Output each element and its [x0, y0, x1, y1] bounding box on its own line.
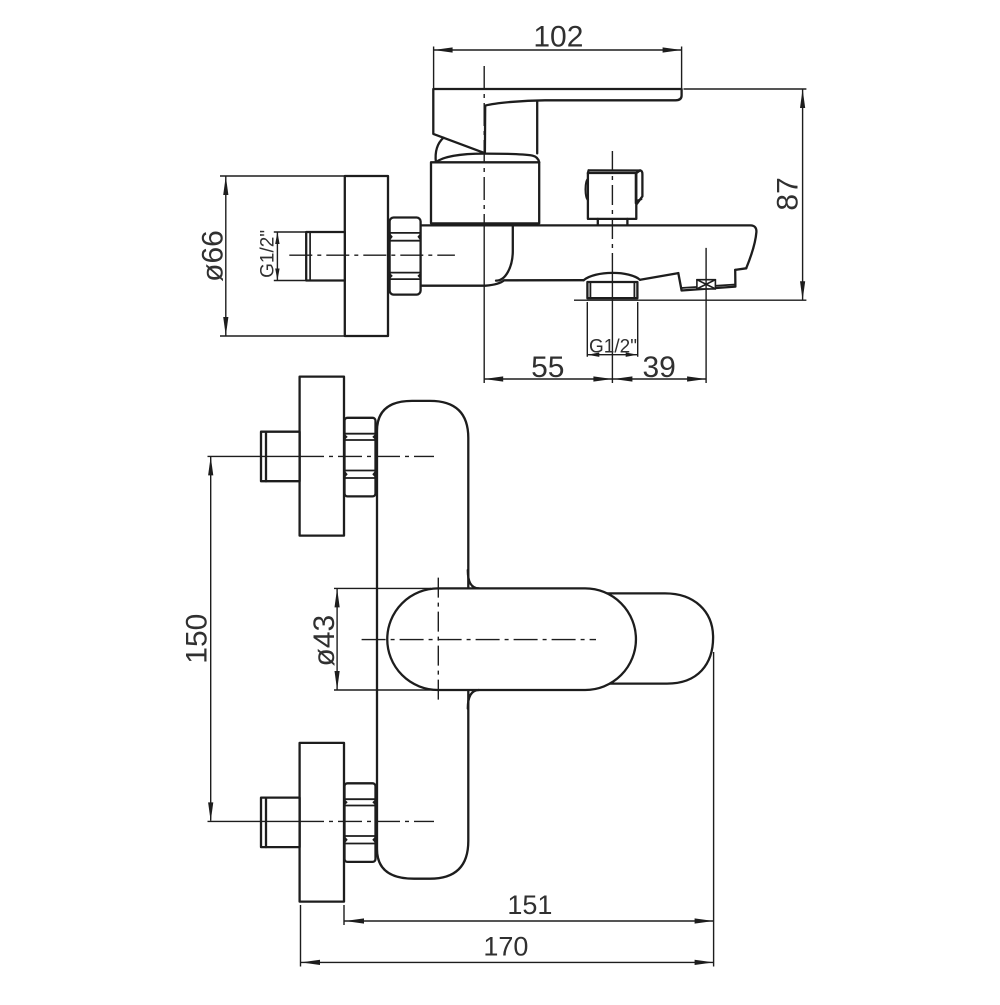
svg-text:ø43: ø43 [308, 615, 341, 667]
diverter clip hook [636, 199, 641, 201]
arrow dim G1/2 lower left [587, 353, 599, 357]
svg-text:87: 87 [772, 177, 805, 210]
diverter knob [588, 173, 636, 219]
aerator center line [705, 248, 707, 383]
shower outlet thread walls [590, 282, 634, 298]
G1/2 upper dim [274, 232, 306, 281]
arrow dim o66 top [223, 176, 228, 195]
55/39 dim [484, 378, 706, 380]
svg-text:G1/2": G1/2" [258, 230, 279, 278]
body top edge [422, 225, 757, 268]
vertical body [377, 401, 468, 879]
150 dim [210, 457, 212, 821]
aerator block [678, 270, 735, 291]
diverter left bulge [586, 179, 589, 200]
spout underside right of aerator [735, 268, 746, 270]
arrow dim G1/2 lower right [626, 353, 638, 357]
thread G1/2 upper [306, 232, 345, 281]
arrow dim 87 top [800, 89, 805, 108]
arrow dim G1/2 upper top [275, 232, 279, 244]
arrow dim 150 top [208, 456, 213, 475]
svg-text:150: 150 [181, 614, 214, 664]
lower nut [345, 783, 376, 862]
svg-text:39: 39 [643, 351, 676, 384]
arrow dim 102 right [663, 47, 682, 52]
arrow dim o66 bottom [223, 317, 228, 336]
arrow dim o43 bottom [335, 671, 340, 690]
87 dim [574, 89, 806, 300]
arrow dim 102 left [434, 47, 453, 52]
arrow dim 55 right [593, 376, 612, 381]
upper flange [300, 377, 344, 536]
diverter neck [598, 219, 628, 226]
arrow dim 39 right [687, 376, 706, 381]
spout stadium [606, 593, 713, 683]
svg-text:ø66: ø66 [196, 230, 229, 282]
diverter center line [611, 151, 613, 262]
dome left arc [436, 138, 444, 163]
body bottom-left edge with step fillet [422, 280, 584, 286]
handle neck right edge [536, 102, 538, 154]
lower thread [261, 798, 300, 848]
arrow dim 150 bottom [208, 802, 213, 821]
arrow dim 170 right [695, 960, 714, 965]
mount center lines [208, 455, 301, 457]
thread relief line upper [309, 232, 311, 281]
lower flange [300, 743, 344, 902]
handle center line [483, 66, 485, 228]
cartridge box [431, 162, 539, 223]
svg-text:102: 102 [533, 20, 583, 53]
arrow dim 151 right [695, 918, 714, 923]
arrow dim 39 left [613, 376, 632, 381]
spout section boundary [496, 225, 513, 280]
arrow dim G1/2 upper bottom [275, 269, 279, 281]
thread relief line mount 2 [265, 798, 267, 848]
svg-text:G1/2": G1/2" [589, 336, 637, 357]
crossed box [697, 280, 716, 289]
svg-text:55: 55 [531, 351, 564, 384]
102 dim [434, 47, 682, 89]
o43 dim [334, 588, 436, 690]
diverter cap corners [588, 170, 640, 173]
spout underside slant [640, 273, 678, 280]
arrow dim 170 left [301, 960, 320, 965]
G1/2 lower dim [587, 302, 637, 357]
arrow dim 87 bottom [800, 281, 805, 300]
o66 dim [220, 176, 345, 336]
hex nut side [390, 218, 421, 295]
arrow dim o43 top [335, 588, 340, 607]
thread relief line mount 1 [265, 432, 267, 482]
arrow dim 151 left [345, 918, 364, 923]
fillets body/stadium [468, 570, 479, 709]
front center lines [362, 639, 596, 641]
mixer stadium [387, 588, 636, 690]
151 dim [301, 652, 714, 967]
upper nut [345, 418, 376, 497]
outlet hump [584, 273, 640, 280]
upper thread [261, 432, 300, 482]
svg-text:151: 151 [507, 890, 552, 920]
arrow dim 55 left [484, 376, 503, 381]
wall flange side [345, 176, 388, 336]
center line body horizontal [289, 254, 455, 256]
svg-text:170: 170 [483, 931, 528, 961]
dome top [436, 154, 539, 163]
diverter clip inner edge [635, 173, 637, 203]
aerator lip [681, 285, 735, 289]
diverter cap and clip [589, 170, 643, 203]
shower outlet block [587, 282, 637, 298]
handle lever [433, 89, 681, 153]
